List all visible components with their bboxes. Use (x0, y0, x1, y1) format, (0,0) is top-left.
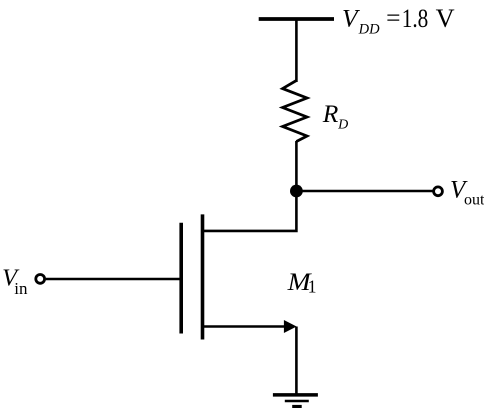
svg-text:1: 1 (308, 277, 317, 297)
svg-text:in: in (14, 279, 28, 298)
svg-text:DD: DD (358, 21, 380, 37)
svg-text:V: V (436, 4, 455, 33)
svg-text:out: out (464, 192, 484, 209)
svg-text:D: D (337, 118, 348, 133)
svg-text:R: R (322, 99, 339, 128)
svg-text:=: = (386, 3, 400, 32)
svg-text:1.8: 1.8 (402, 4, 429, 33)
